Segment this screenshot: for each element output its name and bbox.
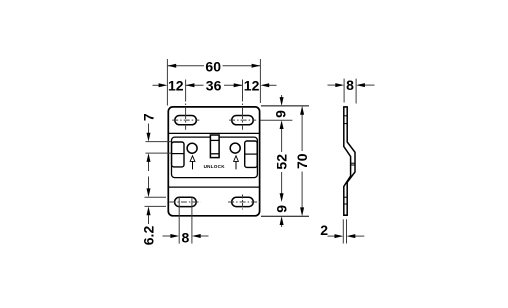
dimension 2 right outside arrow <box>347 234 365 238</box>
dimension 9 top: down arrow above <box>280 95 284 106</box>
svg-text:UNLOCK: UNLOCK <box>204 164 226 169</box>
right latch button <box>245 141 258 167</box>
raised section lower edge line <box>168 186 259 188</box>
dimension 70 line with arrows <box>300 106 304 216</box>
bottom-right slot horizontal centerline <box>228 201 261 203</box>
side view tab edge tick middle <box>351 163 355 165</box>
svg-text:6.2: 6.2 <box>140 226 156 246</box>
top-left slot vertical centerline / extension <box>185 80 187 130</box>
central slider tab <box>210 135 219 158</box>
svg-text:12: 12 <box>168 77 184 93</box>
dimension 8 (side view) extension lines <box>343 79 345 103</box>
bottom-right slot vertical centerline <box>242 195 244 210</box>
top-right slot horizontal centerline <box>229 119 256 121</box>
side profile sheet outline <box>343 107 355 215</box>
top slot centerline extension <box>261 119 293 121</box>
raised section upper edge line <box>168 132 259 134</box>
svg-text:60: 60 <box>205 59 221 75</box>
dimension 52 line with arrows <box>280 120 284 202</box>
extension line right (x=260.4) <box>259 59 261 103</box>
left unlock arrow <box>190 156 195 170</box>
slot edge line y=206.4 <box>145 205 167 207</box>
top-right slot <box>232 116 254 125</box>
dimension 2 left outside arrow <box>328 234 344 238</box>
bottom-right slot <box>232 197 254 206</box>
top-right slot vertical centerline / extension <box>242 80 244 130</box>
slot edge line y=197.2 <box>145 196 167 198</box>
svg-text:9: 9 <box>274 205 290 213</box>
right unlock arrow <box>234 156 239 170</box>
dimension 6.2 up arrow (below) <box>147 206 151 224</box>
right pin circle <box>230 143 240 153</box>
dimension 7 down arrow <box>147 124 151 142</box>
svg-text:8: 8 <box>346 77 354 93</box>
extension line left (x=167.4) <box>166 59 168 106</box>
plate top edge extension line <box>261 105 309 107</box>
side view slot edge ticks bottom <box>344 197 347 204</box>
svg-text:70: 70 <box>294 153 310 169</box>
dimension 8 left outside arrow <box>163 234 180 238</box>
recessed face rounded rectangle <box>172 137 258 178</box>
dimension 9 bottom: up arrow below <box>280 216 284 227</box>
plate bottom edge extension line <box>261 215 309 217</box>
left latch button <box>172 142 184 167</box>
svg-text:52: 52 <box>274 154 290 170</box>
extension line x=179.2 <box>178 197 180 243</box>
dimension 12 right: outside arrow <box>260 83 276 87</box>
dimension 60 line <box>167 64 260 68</box>
mounting plate outline <box>168 107 259 216</box>
svg-text:12: 12 <box>244 77 260 93</box>
side view slot edge ticks top <box>344 116 347 124</box>
dimension 8 right outside arrow <box>192 234 209 238</box>
dimension 12 left: outside arrow <box>153 83 168 87</box>
bottom-left slot horizontal centerline <box>169 201 200 203</box>
feature line y=141.6 <box>146 141 172 143</box>
dimension 6.2 down arrow (above) <box>147 177 151 198</box>
bottom-left slot <box>175 197 197 206</box>
dimension 8 (side view) left outside arrow <box>328 83 345 87</box>
svg-text:36: 36 <box>206 77 222 93</box>
dimension 2 extension lines <box>342 219 344 243</box>
svg-text:7: 7 <box>140 113 156 121</box>
top-left slot <box>175 116 197 125</box>
dimension 7 up arrow (below) <box>147 153 151 171</box>
svg-text:2: 2 <box>320 222 328 238</box>
feature line y=153.1 <box>146 152 172 154</box>
svg-text:9: 9 <box>272 110 288 118</box>
dimension 36 line with arrows <box>186 83 243 87</box>
extension line x=191.9 <box>191 197 193 243</box>
dimension 8 (side view) right outside arrow <box>356 83 374 87</box>
top-left slot horizontal centerline <box>172 119 199 121</box>
svg-text:8: 8 <box>182 229 190 245</box>
left pin circle <box>187 143 197 153</box>
